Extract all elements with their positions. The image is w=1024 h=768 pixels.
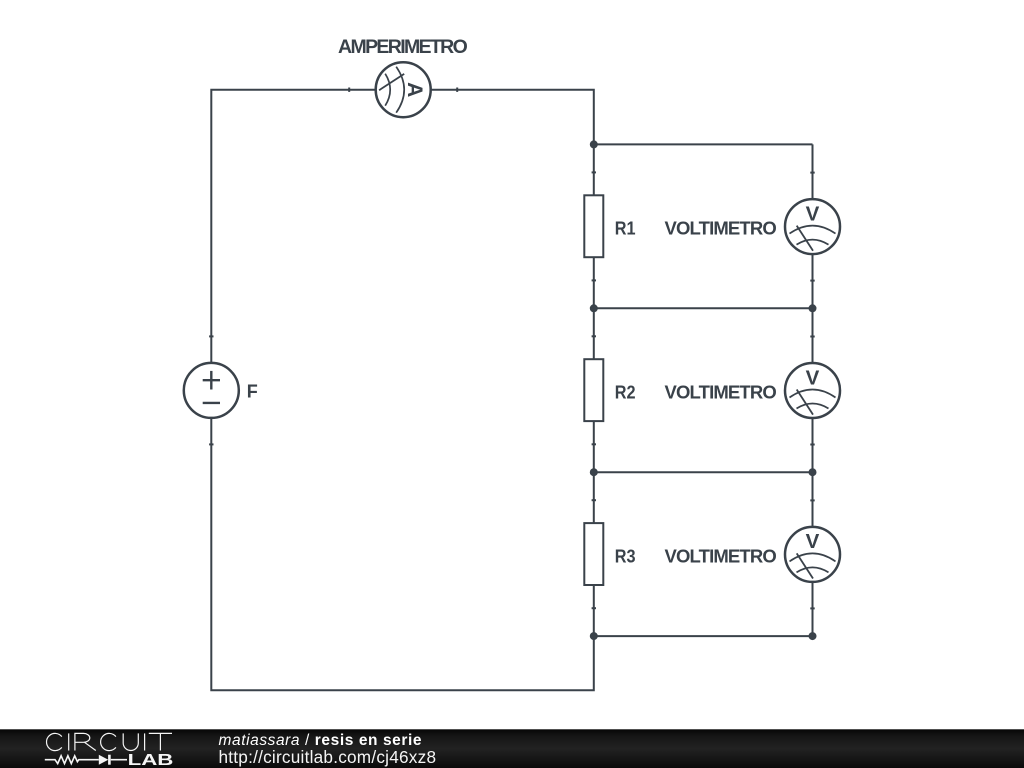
wire: row 1 branch [594, 143, 813, 145]
voltmeter V1 [785, 199, 840, 254]
junction: voltmeter column at row 2 [809, 304, 817, 312]
junction: node D bottom of R3 [590, 632, 598, 640]
terminal nubs (component pin ends) [209, 88, 815, 610]
junction: voltmeter column at row 3 [809, 468, 817, 476]
resistor R3 [584, 523, 603, 585]
junction: voltmeter column at row 4 [809, 632, 817, 640]
svg-text:R2: R2 [615, 381, 636, 402]
voltmeter V2 [785, 363, 840, 418]
svg-text:AMPERIMETRO: AMPERIMETRO [338, 36, 468, 58]
voltage source F [184, 363, 239, 418]
wire: outer loop (top wire, left rail, bottom wire, right drops) [211, 90, 594, 691]
svg-text:V: V [806, 366, 820, 389]
svg-text:LAB: LAB [128, 752, 174, 768]
wire: row 4 branch (bottom) [594, 635, 813, 637]
junction: node A top of R1 [590, 140, 598, 148]
svg-text:http://circuitlab.com/cj46xz8: http://circuitlab.com/cj46xz8 [219, 747, 437, 767]
svg-text:VOLTIMETRO: VOLTIMETRO [665, 218, 777, 239]
svg-text:A: A [403, 82, 426, 97]
svg-text:R1: R1 [615, 218, 636, 239]
wire: voltmeter column [812, 144, 814, 636]
footer bar background [0, 729, 1024, 768]
wire: row 2 branch [594, 307, 813, 309]
CircuitLab logo wordmark CIRCUIT (stroked letters) [47, 733, 172, 750]
wire: row 3 branch [594, 471, 813, 473]
CircuitLab logo resistor zigzag [45, 756, 99, 764]
svg-text:R3: R3 [615, 545, 636, 566]
svg-text:V: V [806, 530, 820, 553]
CircuitLab logo diode [99, 755, 127, 765]
resistor R2 [584, 359, 603, 421]
svg-text:VOLTIMETRO: VOLTIMETRO [665, 381, 777, 402]
junction: node C between R2 and R3 [590, 468, 598, 476]
svg-text:F: F [247, 382, 258, 402]
resistor R1 [584, 195, 603, 257]
voltmeter V3 [785, 527, 840, 582]
junction: node B between R1 and R2 [590, 304, 598, 312]
ammeter U_A [376, 62, 431, 117]
svg-text:V: V [806, 202, 820, 225]
wire: series rail through R1,R2,R3 [593, 144, 595, 636]
svg-text:VOLTIMETRO: VOLTIMETRO [665, 545, 777, 566]
